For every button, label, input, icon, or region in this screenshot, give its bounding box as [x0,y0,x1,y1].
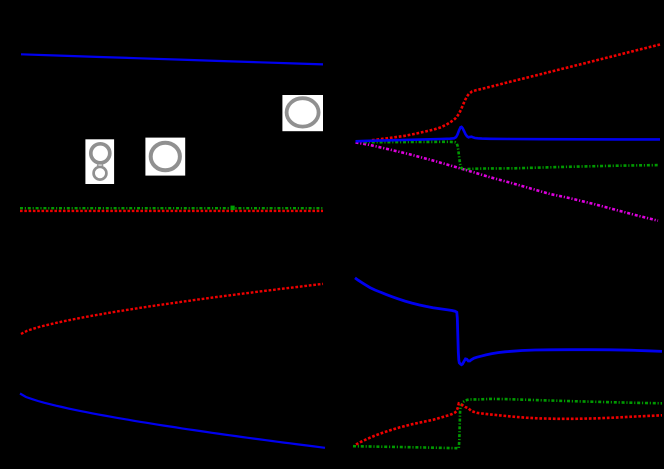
bottom-right lower: green dash-dot curve with jump [353,399,662,448]
bottom-left panel: blue solid falling curve [20,394,325,448]
inset 3: white snapshot box with one large vesicle ring [282,95,323,131]
top-right panel: blue solid curve with bump [356,127,661,141]
bottom-right upper: blue solid curve with sharp drop [355,278,662,365]
top-left panel: blue solid line (bending rigidity vs time) [21,54,323,64]
node: green blip on flat line [231,206,235,211]
top-right panel: magenta dash-dot descending line [356,142,659,220]
top-right panel: green dash-dot curve [364,142,658,170]
small ring [94,167,107,180]
inset 1: white snapshot box with two vesicle rings [85,139,114,184]
neck dots [97,164,99,166]
bottom-right lower: red dotted curve with spike [356,403,662,444]
top-left panel: green dash-dot horizontal line [20,207,323,209]
big ring [91,144,110,163]
top-left panel: red dotted horizontal line [20,210,323,212]
bottom-left panel: red dotted rising curve [21,284,323,334]
inset 2: white snapshot box with one vesicle ring [145,138,185,176]
top-right panel: red dotted curve (area difference) [372,45,660,141]
